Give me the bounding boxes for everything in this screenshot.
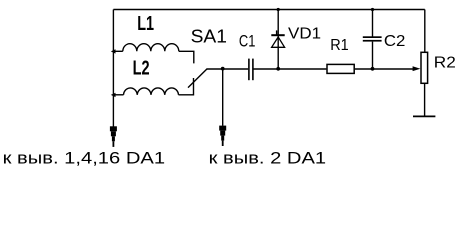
svg-text:R2: R2 [434,55,456,72]
svg-text:R1: R1 [330,37,349,54]
svg-text:к выв. 2 DA1: к выв. 2 DA1 [209,149,327,168]
svg-text:C1: C1 [239,32,256,51]
svg-text:L1: L1 [137,13,154,35]
svg-text:VD1: VD1 [288,26,321,43]
svg-text:SA1: SA1 [191,26,227,46]
svg-text:C2: C2 [384,33,406,50]
svg-text:L2: L2 [133,58,150,80]
svg-text:к выв. 1,4,16 DA1: к выв. 1,4,16 DA1 [3,149,166,168]
